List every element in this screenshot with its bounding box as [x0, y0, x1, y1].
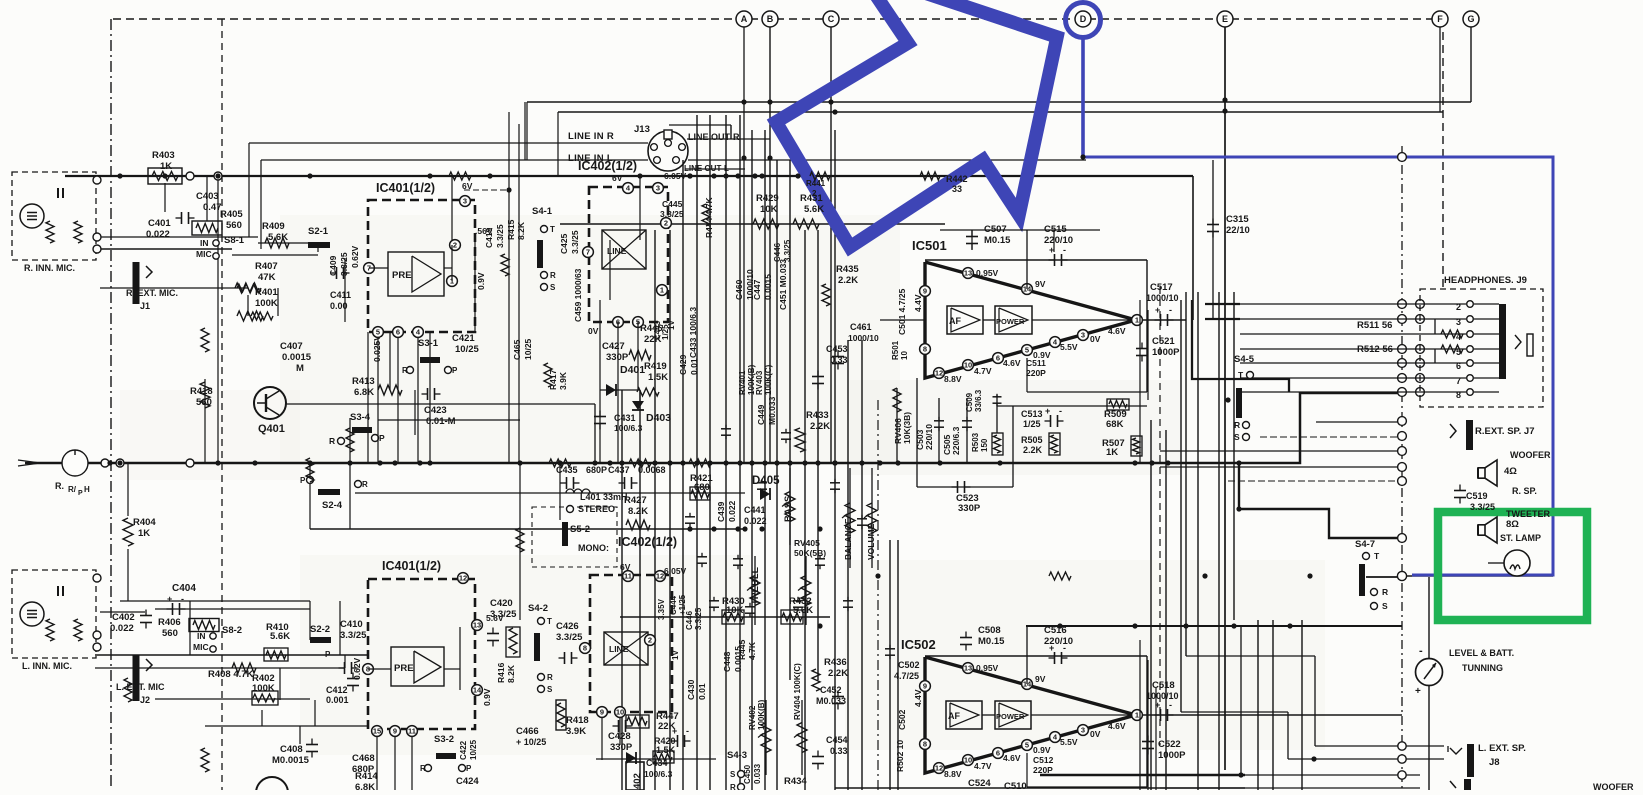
svg-text:D405: D405: [752, 475, 780, 487]
svg-text:6V: 6V: [620, 562, 631, 572]
svg-text:R: R: [1382, 587, 1388, 597]
svg-text:RV401: RV401: [738, 370, 747, 395]
svg-text:8.8V: 8.8V: [944, 374, 962, 384]
svg-text:0.001: 0.001: [326, 695, 349, 705]
svg-text:WOOFER: WOOFER: [1510, 450, 1551, 460]
svg-text:+: +: [1045, 406, 1050, 416]
svg-text:L401 33mH: L401 33mH: [580, 492, 628, 502]
svg-text:4.4V: 4.4V: [913, 689, 923, 707]
svg-text:C445: C445: [662, 199, 683, 209]
svg-text:3: 3: [656, 184, 660, 193]
svg-text:5.6K: 5.6K: [268, 232, 288, 243]
svg-text:-: -: [1063, 245, 1066, 255]
svg-text:S5-2: S5-2: [570, 524, 590, 535]
svg-text:C408: C408: [280, 744, 303, 755]
svg-text:50K(5B): 50K(5B): [794, 548, 826, 558]
svg-text:S: S: [547, 685, 553, 694]
svg-text:M: M: [296, 363, 304, 374]
svg-text:C428: C428: [608, 731, 631, 742]
svg-text:9: 9: [600, 708, 604, 717]
svg-text:C502: C502: [897, 709, 907, 730]
svg-text:68K: 68K: [1106, 419, 1124, 430]
svg-text:9: 9: [393, 727, 397, 736]
svg-text:S4-2: S4-2: [528, 603, 548, 614]
svg-text:0.033: 0.033: [753, 763, 762, 784]
svg-text:S2-2: S2-2: [310, 624, 330, 635]
svg-text:33/6.3: 33/6.3: [974, 389, 983, 412]
svg-text:+ 10/25: + 10/25: [516, 737, 546, 747]
svg-text:POWER: POWER: [996, 712, 1025, 721]
svg-text:0V: 0V: [1090, 334, 1101, 344]
svg-text:0.9V: 0.9V: [482, 688, 492, 706]
svg-text:C439: C439: [716, 501, 726, 522]
svg-text:C465: C465: [512, 339, 522, 360]
svg-text:S: S: [1382, 601, 1388, 611]
svg-text:1: 1: [660, 286, 664, 295]
svg-text:0.95V: 0.95V: [976, 268, 999, 278]
svg-text:12: 12: [935, 764, 943, 773]
svg-text:C425: C425: [559, 233, 569, 254]
svg-text:150: 150: [980, 438, 989, 452]
svg-text:E: E: [1222, 14, 1228, 24]
svg-text:3.3/25: 3.3/25: [694, 607, 703, 630]
svg-text:6.8K: 6.8K: [354, 387, 374, 398]
svg-text:F: F: [1437, 14, 1443, 24]
svg-text:C437: C437: [608, 465, 630, 475]
svg-text:R418: R418: [566, 715, 589, 726]
svg-text:1.5K: 1.5K: [648, 372, 668, 383]
svg-text:0.47: 0.47: [203, 202, 222, 213]
svg-text:0.0015: 0.0015: [733, 646, 743, 672]
svg-text:IC502: IC502: [901, 637, 936, 652]
svg-text:MONO:: MONO:: [578, 543, 609, 553]
svg-text:C407: C407: [280, 341, 303, 352]
svg-text:C430: C430: [686, 679, 696, 700]
svg-text:10/25: 10/25: [469, 739, 478, 760]
svg-text:4.6V: 4.6V: [1108, 326, 1126, 336]
svg-text:C433 100/6.3: C433 100/6.3: [688, 307, 698, 358]
svg-text:7: 7: [586, 248, 590, 257]
svg-text:R418: R418: [190, 386, 213, 397]
svg-text:LINE OUT: LINE OUT: [688, 132, 731, 142]
svg-text:L. EXT. MIC: L. EXT. MIC: [116, 682, 165, 692]
svg-text:C454: C454: [826, 735, 848, 745]
svg-text:C524: C524: [968, 778, 991, 789]
svg-text:C522: C522: [1158, 739, 1181, 750]
svg-text:LINE IN L: LINE IN L: [568, 153, 613, 164]
svg-text:13: 13: [964, 664, 972, 673]
svg-text:-: -: [1063, 643, 1066, 653]
svg-text:0.01: 0.01: [689, 358, 699, 375]
svg-text:Q401: Q401: [258, 423, 285, 435]
svg-text:560: 560: [196, 397, 212, 408]
svg-text:47K: 47K: [258, 272, 276, 283]
svg-text:R. INN. MIC.: R. INN. MIC.: [24, 263, 75, 273]
svg-text:1K: 1K: [160, 161, 172, 172]
svg-text:6V: 6V: [612, 173, 623, 183]
svg-text:8.8V: 8.8V: [944, 769, 962, 779]
svg-text:4Ω: 4Ω: [1504, 466, 1517, 477]
svg-text:220/10: 220/10: [924, 424, 934, 450]
svg-text:S3-4: S3-4: [350, 412, 371, 423]
svg-text:C460: C460: [734, 279, 744, 300]
svg-text:0.0015: 0.0015: [763, 274, 773, 300]
svg-text:3.9K: 3.9K: [566, 726, 586, 737]
svg-text:C453: C453: [826, 344, 848, 354]
svg-text:MIC: MIC: [196, 249, 212, 259]
svg-text:J13: J13: [634, 124, 650, 135]
svg-text:R415: R415: [506, 219, 516, 240]
svg-text:2: 2: [1456, 302, 1461, 312]
svg-text:C516: C516: [1044, 625, 1067, 636]
svg-text:G: G: [1467, 14, 1474, 24]
svg-text:RV404 100K(C): RV404 100K(C): [793, 663, 802, 720]
svg-text:13: 13: [473, 621, 481, 630]
svg-text:R409: R409: [262, 221, 285, 232]
svg-text:C508: C508: [978, 625, 1001, 636]
svg-text:C512: C512: [1033, 755, 1054, 765]
svg-text:A: A: [741, 14, 748, 24]
svg-text:S: S: [550, 283, 556, 292]
svg-text:R: R: [420, 764, 426, 773]
svg-text:LINE OUT: LINE OUT: [684, 164, 721, 173]
svg-text:C410: C410: [340, 619, 363, 630]
svg-text:R436: R436: [824, 657, 847, 668]
svg-text:+: +: [1415, 686, 1421, 697]
svg-text:C517: C517: [1150, 282, 1173, 293]
svg-text:4.7K: 4.7K: [747, 641, 757, 660]
svg-text:R.EXT. SP. J7: R.EXT. SP. J7: [1475, 426, 1535, 437]
svg-text:C501 4.7/25: C501 4.7/25: [897, 288, 907, 335]
svg-text:0.025V: 0.025V: [372, 335, 382, 362]
svg-text:2: 2: [648, 636, 652, 645]
svg-text:P: P: [325, 650, 331, 659]
svg-text:3: 3: [1456, 317, 1461, 327]
svg-text:R405: R405: [220, 209, 243, 220]
svg-text:10/25: 10/25: [523, 338, 533, 360]
svg-text:4.6V: 4.6V: [1003, 358, 1021, 368]
svg-text:6V: 6V: [462, 181, 473, 191]
svg-text:0.33: 0.33: [830, 746, 848, 756]
svg-text:R: R: [362, 480, 368, 489]
svg-text:RV405: RV405: [794, 538, 820, 548]
svg-text:14: 14: [473, 686, 482, 695]
svg-text:100K: 100K: [252, 683, 275, 694]
svg-text:S2-4: S2-4: [322, 500, 343, 511]
svg-text:C521: C521: [1152, 336, 1175, 347]
svg-text:100K: 100K: [255, 298, 278, 309]
svg-text:3.3/25: 3.3/25: [570, 230, 580, 254]
svg-text:POWER: POWER: [996, 317, 1025, 326]
svg-text:0.9V: 0.9V: [1033, 745, 1051, 755]
svg-text:P: P: [379, 433, 385, 443]
svg-text:IN: IN: [200, 238, 209, 248]
svg-text:560: 560: [226, 220, 242, 231]
svg-text:3.3/25: 3.3/25: [783, 239, 792, 262]
svg-text:220P: 220P: [1026, 368, 1046, 378]
svg-text:0.022: 0.022: [146, 229, 170, 240]
svg-text:R512 56: R512 56: [1357, 344, 1393, 355]
svg-text:M0.15: M0.15: [984, 235, 1011, 246]
svg-text:C461: C461: [850, 322, 872, 332]
svg-text:4.7V: 4.7V: [974, 761, 992, 771]
svg-text:R433: R433: [806, 410, 829, 421]
svg-text:C435: C435: [556, 465, 578, 475]
svg-text:2: 2: [453, 241, 457, 250]
svg-text:R. SP.: R. SP.: [1512, 486, 1537, 496]
svg-text:RV402: RV402: [748, 705, 757, 730]
svg-text:P: P: [452, 366, 458, 375]
svg-text:C502: C502: [898, 660, 920, 670]
svg-text:C411: C411: [330, 290, 351, 300]
svg-text:10: 10: [616, 708, 624, 717]
svg-text:C446: C446: [773, 242, 782, 262]
svg-text:33: 33: [952, 184, 962, 194]
svg-text:R: R: [547, 673, 553, 682]
svg-text:3.3/25: 3.3/25: [495, 224, 505, 248]
svg-text:R/: R/: [68, 485, 77, 494]
svg-text:R404: R404: [133, 517, 156, 528]
svg-text:R435: R435: [836, 264, 859, 275]
svg-text:IC401(1/2): IC401(1/2): [376, 181, 435, 195]
svg-text:C441: C441: [744, 505, 766, 515]
svg-text:S3-2: S3-2: [434, 734, 454, 745]
svg-text:P: P: [300, 476, 306, 485]
svg-text:C421: C421: [452, 333, 475, 344]
svg-text:0.95V: 0.95V: [976, 663, 999, 673]
svg-text:C423: C423: [424, 405, 447, 416]
svg-text:8.2K: 8.2K: [516, 221, 526, 240]
svg-text:15: 15: [373, 727, 381, 736]
svg-text:STEREO: STEREO: [578, 504, 615, 514]
svg-text:0.022: 0.022: [727, 500, 737, 522]
svg-text:TWEETER: TWEETER: [1506, 509, 1550, 519]
svg-text:C466: C466: [516, 726, 539, 737]
svg-text:5: 5: [376, 328, 380, 337]
svg-text:LINE IN R: LINE IN R: [568, 131, 614, 142]
svg-text:11: 11: [624, 572, 632, 581]
svg-text:R. EXT. MIC.: R. EXT. MIC.: [126, 288, 178, 298]
svg-text:S2-1: S2-1: [308, 226, 329, 237]
svg-text:C513: C513: [1021, 409, 1043, 419]
svg-text:R414: R414: [355, 771, 378, 782]
svg-text:T: T: [1374, 551, 1380, 561]
svg-text:C449: C449: [756, 404, 766, 425]
svg-text:9: 9: [923, 682, 927, 691]
svg-text:IC501: IC501: [912, 238, 947, 253]
svg-text:R406: R406: [158, 617, 181, 628]
svg-text:5.6K: 5.6K: [270, 631, 290, 642]
svg-text:R403: R403: [152, 150, 175, 161]
svg-text:D403: D403: [646, 412, 671, 424]
svg-text:R434: R434: [784, 776, 807, 787]
svg-text:RV403: RV403: [755, 370, 764, 395]
svg-text:T: T: [1238, 370, 1244, 380]
svg-text:R502 10: R502 10: [895, 740, 905, 772]
svg-text:1.5K: 1.5K: [656, 745, 676, 755]
svg-text:8: 8: [583, 644, 587, 653]
svg-text:10: 10: [964, 756, 972, 765]
svg-text:2: 2: [812, 189, 817, 198]
svg-text:10K: 10K: [760, 204, 778, 215]
svg-text:S4-3: S4-3: [727, 750, 747, 761]
svg-text:C459 1000/63: C459 1000/63: [573, 268, 583, 322]
svg-text:3: 3: [1081, 726, 1085, 735]
svg-text:P: P: [466, 764, 472, 773]
svg-text:8: 8: [923, 345, 927, 354]
svg-text:1K: 1K: [138, 528, 150, 539]
svg-text:10K(3B): 10K(3B): [902, 412, 912, 444]
svg-text:0.01-M: 0.01-M: [426, 416, 456, 427]
svg-text:S4-5: S4-5: [1234, 354, 1255, 365]
svg-text:0.022: 0.022: [110, 623, 134, 634]
svg-text:7: 7: [1456, 376, 1461, 386]
svg-text:3: 3: [1081, 331, 1085, 340]
svg-text:J8: J8: [1489, 757, 1500, 768]
svg-text:S4-7: S4-7: [1355, 539, 1375, 550]
svg-text:M0.033: M0.033: [767, 396, 777, 425]
svg-text:C422: C422: [459, 740, 468, 760]
svg-text:J1: J1: [140, 301, 150, 311]
svg-text:0.022: 0.022: [744, 516, 767, 526]
svg-text:330P: 330P: [610, 742, 633, 753]
svg-text:LINE: LINE: [609, 644, 629, 654]
svg-text:R: R: [550, 271, 556, 280]
svg-text:R441: R441: [806, 179, 826, 188]
svg-text:9V: 9V: [1035, 674, 1046, 684]
svg-text:3.3/25: 3.3/25: [556, 632, 583, 643]
svg-text:L. INN. MIC.: L. INN. MIC.: [22, 661, 72, 671]
svg-text:P: P: [78, 490, 83, 497]
svg-text:3.3/25: 3.3/25: [1470, 502, 1495, 512]
svg-text:MIC: MIC: [193, 642, 209, 652]
svg-text:R511 56: R511 56: [1357, 320, 1392, 331]
svg-text:S3-1: S3-1: [418, 338, 439, 349]
svg-text:2.2K: 2.2K: [810, 421, 830, 432]
svg-text:M0.0015: M0.0015: [272, 755, 310, 766]
svg-text:R: R: [329, 436, 335, 446]
svg-text:AF: AF: [948, 711, 960, 721]
svg-text:D401: D401: [620, 364, 645, 376]
svg-text:22/10: 22/10: [1226, 225, 1250, 236]
svg-text:8: 8: [1456, 390, 1461, 400]
svg-text:13: 13: [964, 269, 972, 278]
svg-text:1: 1: [1135, 316, 1139, 325]
svg-text:R: R: [730, 783, 736, 790]
svg-text:8: 8: [923, 740, 927, 749]
svg-text:3: 3: [463, 197, 467, 206]
svg-text:C511: C511: [1026, 358, 1046, 368]
svg-text:+: +: [1155, 305, 1160, 315]
svg-text:C429: C429: [678, 354, 688, 375]
svg-text:S: S: [1234, 432, 1240, 442]
svg-text:T: T: [550, 225, 555, 234]
svg-text:AF: AF: [949, 316, 961, 326]
svg-text:IC401(1/2): IC401(1/2): [382, 559, 441, 573]
svg-text:6: 6: [396, 328, 400, 337]
svg-text:1000/10: 1000/10: [745, 269, 755, 300]
svg-text:C446: C446: [685, 610, 694, 630]
svg-text:1: 1: [1135, 711, 1139, 720]
svg-text:T: T: [547, 617, 552, 626]
svg-text:12: 12: [935, 369, 943, 378]
svg-text:B: B: [767, 14, 774, 24]
svg-text:C412: C412: [326, 685, 348, 695]
svg-text:10: 10: [900, 351, 909, 360]
svg-text:1000/10: 1000/10: [1146, 293, 1179, 303]
svg-text:M0.15: M0.15: [978, 636, 1005, 647]
svg-text:4.4V: 4.4V: [913, 294, 923, 312]
svg-text:5.6K: 5.6K: [804, 204, 824, 215]
svg-text:H: H: [84, 485, 90, 494]
svg-text:-: -: [1059, 406, 1062, 416]
svg-text:8Ω: 8Ω: [1506, 519, 1519, 530]
svg-text:M0.033: M0.033: [816, 696, 846, 706]
svg-text:R442: R442: [946, 174, 968, 184]
svg-text:WOOFER: WOOFER: [1593, 782, 1634, 790]
svg-text:3.3/25: 3.3/25: [490, 609, 517, 620]
svg-text:S: S: [730, 770, 736, 779]
svg-text:402: 402: [632, 773, 643, 789]
svg-text:C444: C444: [669, 595, 678, 615]
svg-text:C404: C404: [172, 583, 196, 594]
svg-text:+: +: [167, 594, 172, 604]
svg-text:0.0015: 0.0015: [282, 352, 312, 363]
svg-text:J2: J2: [140, 695, 150, 705]
svg-text:11: 11: [408, 727, 416, 736]
svg-text:TUNNING: TUNNING: [1462, 663, 1503, 673]
svg-text:100/6.3: 100/6.3: [644, 769, 673, 779]
svg-text:C420: C420: [490, 598, 513, 609]
svg-text:C424: C424: [456, 776, 479, 787]
svg-text:0V: 0V: [1090, 729, 1101, 739]
svg-text:+: +: [672, 726, 677, 736]
svg-text:0.33: 0.33: [830, 355, 848, 365]
svg-text:0.01: 0.01: [697, 683, 707, 700]
svg-text:5: 5: [1025, 741, 1029, 750]
svg-text:PRE: PRE: [392, 270, 412, 281]
svg-text:100K(C): 100K(C): [764, 364, 773, 395]
svg-text:C519: C519: [1466, 491, 1488, 501]
svg-text:R413: R413: [352, 376, 375, 387]
svg-text:5.5V: 5.5V: [1060, 737, 1078, 747]
svg-text:2.2K: 2.2K: [1023, 445, 1043, 455]
svg-text:3.9K: 3.9K: [558, 371, 568, 390]
svg-text:5.5V: 5.5V: [1060, 342, 1078, 352]
svg-text:2.2K: 2.2K: [828, 668, 848, 679]
svg-text:C426: C426: [556, 621, 579, 632]
svg-text:R407: R407: [255, 261, 278, 272]
svg-text:9: 9: [923, 287, 927, 296]
svg-text:4.6V: 4.6V: [1003, 753, 1021, 763]
svg-text:R505: R505: [1021, 435, 1043, 445]
svg-text:LINE: LINE: [607, 246, 627, 256]
svg-text:R.: R.: [55, 481, 64, 491]
svg-text:2.2K: 2.2K: [838, 275, 858, 286]
svg-text:PRE: PRE: [394, 663, 414, 674]
svg-text:0V: 0V: [588, 326, 599, 336]
svg-text:4.6V: 4.6V: [1108, 721, 1126, 731]
svg-text:1V: 1V: [671, 650, 680, 660]
svg-text:R419: R419: [644, 361, 667, 372]
svg-text:C468: C468: [352, 753, 375, 764]
svg-text:4.7/25: 4.7/25: [894, 671, 919, 681]
svg-text:10/25: 10/25: [455, 344, 479, 355]
svg-text:R: R: [1234, 420, 1240, 430]
svg-text:4.7V: 4.7V: [974, 366, 992, 376]
svg-text:3.3/25: 3.3/25: [340, 630, 367, 641]
svg-text:1000/10: 1000/10: [848, 333, 879, 343]
